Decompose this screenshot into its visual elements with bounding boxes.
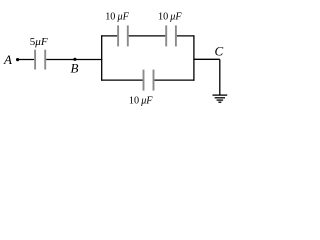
svg-text:A: A (3, 52, 12, 67)
svg-text:5μF: 5μF (30, 36, 48, 48)
svg-text:10μF: 10μF (158, 12, 182, 23)
svg-text:B: B (71, 61, 79, 76)
svg-text:10μF: 10μF (129, 96, 153, 107)
svg-text:10μF: 10μF (105, 12, 129, 23)
svg-text:C: C (215, 43, 224, 58)
